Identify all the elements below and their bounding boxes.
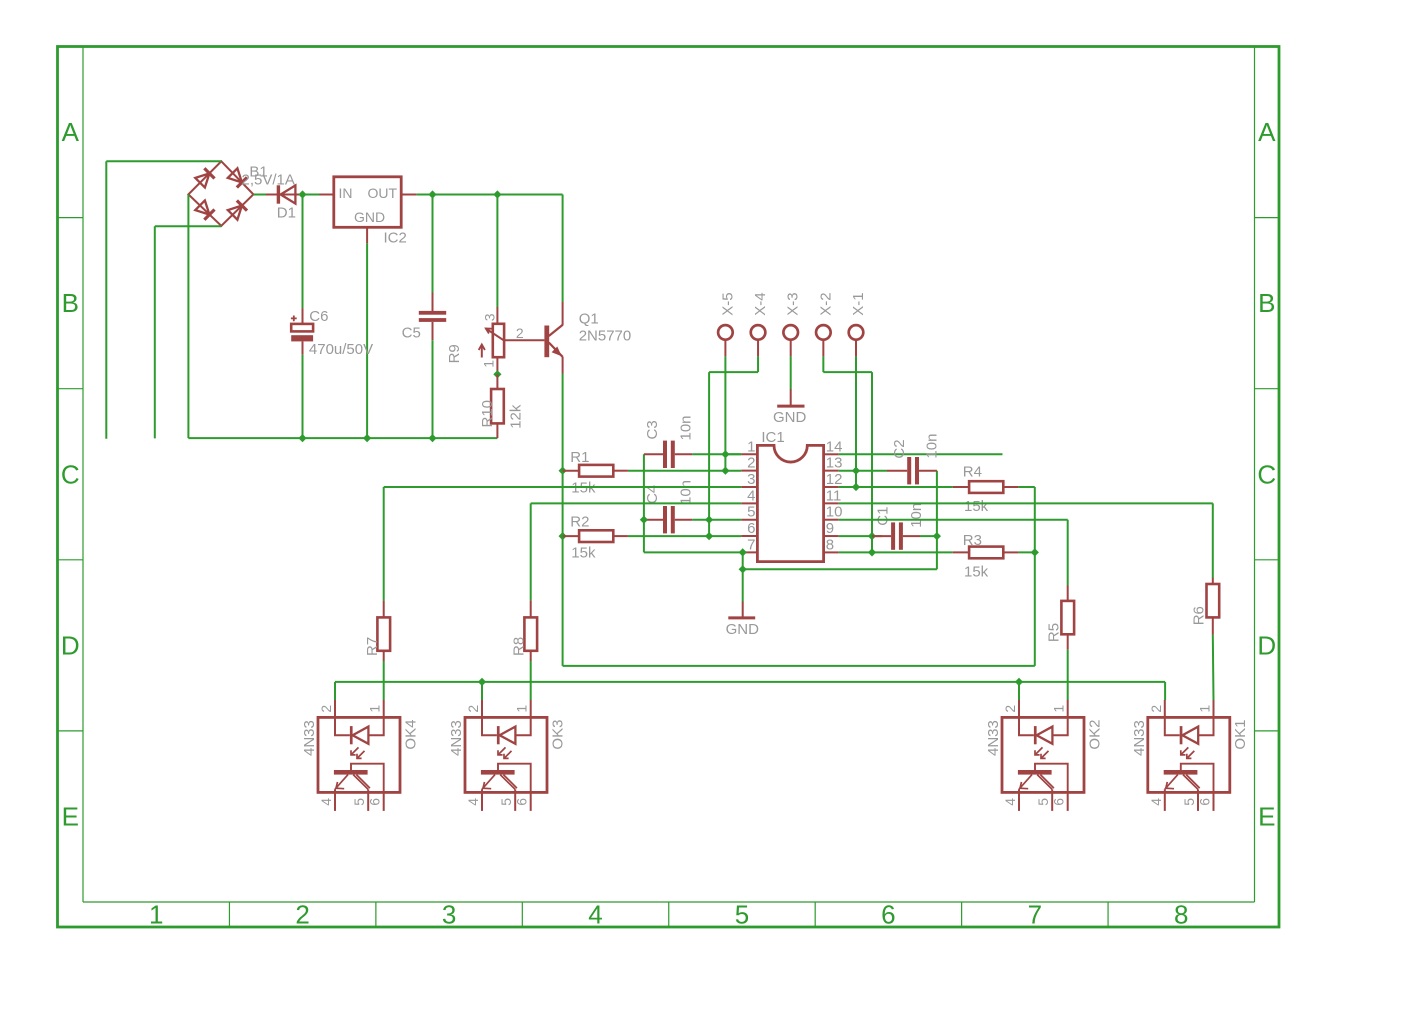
svg-text:4N33: 4N33: [1131, 720, 1148, 756]
wire X-2 down: [822, 356, 824, 372]
svg-text:7: 7: [1028, 900, 1042, 930]
svg-text:1: 1: [1197, 705, 1213, 713]
svg-text:D1: D1: [277, 204, 296, 221]
bridge diode B1 bottom-left: [195, 200, 215, 220]
svg-text:C2: C2: [891, 439, 908, 458]
svg-text:E: E: [62, 801, 79, 831]
frame row divider right: [1255, 730, 1280, 732]
resistor R3: [953, 547, 1019, 559]
connector X-4 pad: [751, 325, 766, 340]
wire AC1 left vertical: [105, 161, 107, 438]
connector X-3 pad: [783, 325, 798, 340]
svg-text:8: 8: [1174, 900, 1188, 930]
svg-text:1: 1: [514, 705, 530, 713]
svg-text:11: 11: [826, 487, 842, 504]
wire R8 drop: [530, 503, 532, 600]
svg-text:13: 13: [826, 455, 843, 472]
svg-text:OK3: OK3: [549, 720, 566, 750]
bridge diode B1 top-left: [195, 168, 215, 188]
svg-text:D: D: [1257, 630, 1276, 660]
frame row divider right: [1255, 559, 1280, 561]
svg-text:12k: 12k: [507, 404, 524, 429]
wire ground rail: [188, 437, 497, 439]
svg-text:1: 1: [747, 438, 755, 455]
IC1 pin 3 stub: [741, 486, 757, 488]
svg-text:GND: GND: [773, 409, 807, 426]
resistor R6: [1207, 578, 1220, 635]
diode D1: [266, 185, 300, 203]
svg-text:15k: 15k: [964, 498, 989, 515]
svg-text:470u/50V: 470u/50V: [309, 341, 373, 358]
svg-text:5: 5: [735, 900, 749, 930]
svg-text:7: 7: [747, 536, 755, 553]
junction X-5/pin1: [721, 450, 729, 458]
svg-text:1: 1: [367, 705, 383, 713]
svg-text:IC2: IC2: [384, 229, 407, 246]
wire C-link to pin7: [644, 551, 743, 553]
wire R5 to OK2 pin1: [1067, 650, 1069, 700]
ground symbol at X-3: [777, 389, 804, 406]
wire C-right vertical: [936, 471, 938, 570]
frame column divider: [814, 902, 816, 927]
junction R9/R10: [493, 370, 501, 378]
svg-text:6: 6: [747, 520, 755, 537]
wire R5 drop: [1067, 520, 1069, 586]
junction C4 left: [640, 516, 648, 524]
IC1 pin 2 stub: [741, 470, 757, 472]
svg-text:OK1: OK1: [1232, 720, 1249, 750]
junction rail OK2: [1015, 678, 1023, 686]
svg-text:8: 8: [826, 536, 834, 553]
wire D1 to IC2: [300, 194, 320, 196]
wire pin12 to R4: [839, 486, 953, 488]
svg-text:6: 6: [367, 798, 383, 806]
svg-text:6: 6: [1051, 798, 1067, 806]
svg-text:3: 3: [442, 900, 456, 930]
svg-text:4: 4: [465, 798, 481, 806]
junction R2 left: [559, 532, 567, 540]
svg-text:B: B: [62, 288, 79, 318]
wire bottom loop horizontal: [563, 665, 1035, 667]
frame column divider: [961, 902, 963, 927]
svg-text:2: 2: [295, 900, 309, 930]
svg-text:X-1: X-1: [850, 292, 867, 315]
svg-text:10n: 10n: [677, 415, 694, 440]
wire bridge plus to D1: [253, 194, 268, 196]
frame column divider: [668, 902, 670, 927]
frame row divider left: [58, 730, 84, 732]
svg-text:4: 4: [588, 900, 602, 930]
wire GND junction right: [743, 568, 937, 570]
junction GND loop: [739, 565, 747, 573]
connector X-1 pad: [849, 325, 864, 340]
frame inner bottom line: [83, 901, 1255, 903]
bridge rectifier B1 outline: [188, 161, 253, 226]
connector X-5 pad: [718, 325, 733, 340]
wire X-4 to pins: [708, 372, 710, 536]
wire pin11 long: [839, 502, 1213, 504]
wire loop right vertical: [1034, 487, 1036, 666]
IC1 pin 10 stub: [824, 519, 839, 521]
wire R3 right: [1018, 551, 1034, 553]
resistor R10: [491, 374, 504, 438]
svg-text:6: 6: [881, 900, 895, 930]
svg-text:5: 5: [498, 798, 514, 806]
bridge diode B1 top-right: [228, 168, 248, 188]
wire GND junction down: [742, 569, 744, 601]
resistor R5: [1061, 585, 1074, 650]
svg-text:10: 10: [826, 504, 843, 521]
svg-text:4: 4: [1002, 798, 1018, 806]
frame column divider: [1107, 902, 1109, 927]
IC1 pin 12 stub: [824, 486, 839, 488]
frame column divider: [228, 902, 230, 927]
ground symbol under IC1: [728, 602, 755, 619]
IC1 pin 7 stub: [741, 551, 757, 553]
wire pin9 to C1: [839, 535, 882, 537]
IC2 pin IN stub: [319, 194, 333, 196]
wire IC2 GND down: [366, 243, 368, 438]
capacitor C2: [887, 457, 937, 484]
frame row divider right: [1255, 217, 1280, 219]
svg-text:5: 5: [351, 798, 367, 806]
resistor R1: [563, 465, 628, 477]
wire pin6 to R2: [628, 535, 741, 537]
svg-text:X-4: X-4: [752, 292, 769, 315]
frame row divider left: [58, 559, 84, 561]
svg-text:X-2: X-2: [817, 292, 834, 315]
svg-text:R5: R5: [1046, 623, 1063, 642]
svg-text:2: 2: [465, 705, 481, 713]
svg-text:A: A: [1258, 117, 1276, 147]
svg-text:4: 4: [1148, 798, 1164, 806]
capacitor C4: [644, 506, 692, 533]
wire rail to OK2 pin2: [1018, 682, 1020, 700]
IC1 pin 9 stub: [824, 535, 839, 537]
svg-text:4N33: 4N33: [448, 720, 465, 756]
wire pin4 to R8: [531, 502, 742, 504]
svg-text:4N33: 4N33: [985, 720, 1002, 756]
IC1 pin 4 stub: [741, 502, 757, 504]
svg-text:IC1: IC1: [761, 429, 784, 446]
svg-text:14: 14: [826, 438, 843, 455]
svg-text:4N33: 4N33: [301, 720, 318, 756]
svg-text:2: 2: [318, 705, 334, 713]
svg-text:R2: R2: [570, 513, 589, 530]
connector X-3 pin stub: [790, 340, 792, 356]
svg-text:R8: R8: [511, 637, 528, 656]
IC1 pin 14 stub: [824, 453, 839, 455]
wire rail to OK3 pin2: [481, 682, 483, 700]
wire pin8 to R3: [839, 551, 953, 553]
svg-text:OK4: OK4: [402, 720, 419, 750]
svg-text:C5: C5: [402, 325, 421, 342]
junction X-5/pin2: [721, 467, 729, 475]
svg-text:6: 6: [514, 798, 530, 806]
IC1 pin 13 stub: [824, 470, 839, 472]
wire X-5 down: [724, 356, 726, 470]
IC2 pin OUT stub: [401, 194, 417, 196]
connector X-5 pin stub: [724, 340, 726, 356]
svg-text:4: 4: [318, 798, 334, 806]
svg-text:R1: R1: [570, 449, 589, 466]
connector X-2 pad: [816, 325, 831, 340]
optocoupler OK1: [1148, 700, 1230, 811]
junction X-4/pin6: [705, 532, 713, 540]
svg-text:5: 5: [747, 504, 755, 521]
junction X-2/pin8: [868, 548, 876, 556]
svg-text:5: 5: [1181, 798, 1197, 806]
frame outer border: [58, 47, 1280, 928]
wire pin1: [725, 453, 741, 455]
bridge diode B1 bottom-right: [228, 200, 248, 220]
transistor Q1: [544, 302, 562, 374]
optocoupler OK4: [318, 700, 400, 811]
wire AC2 horizontal: [155, 225, 222, 227]
frame row divider right: [1255, 388, 1280, 390]
wire X-4 jog: [709, 371, 758, 373]
svg-text:OK2: OK2: [1086, 720, 1103, 750]
svg-text:5: 5: [1035, 798, 1051, 806]
resistor R2: [563, 530, 628, 542]
resistor R8: [524, 601, 537, 661]
frame row divider left: [58, 388, 84, 390]
op-amp IC1 box: [757, 445, 823, 561]
svg-text:R6: R6: [1191, 606, 1208, 625]
wire X-2 to pins: [871, 372, 873, 552]
wire Q1 emitter down: [562, 374, 564, 666]
svg-text:IN: IN: [339, 185, 353, 201]
wire C6 bottom: [302, 355, 304, 438]
svg-text:R3: R3: [963, 532, 982, 549]
svg-text:3: 3: [481, 313, 497, 321]
svg-text:15k: 15k: [571, 545, 596, 562]
svg-text:12: 12: [826, 471, 843, 488]
frame column divider: [521, 902, 523, 927]
IC1 pin 11 stub: [824, 502, 839, 504]
svg-text:C: C: [61, 459, 80, 489]
svg-text:1: 1: [149, 900, 163, 930]
junction C1 right: [933, 532, 941, 540]
IC1 pin 6 stub: [741, 535, 757, 537]
svg-text:GND: GND: [354, 209, 385, 225]
svg-text:9: 9: [826, 520, 834, 537]
wire R7 drop: [383, 487, 385, 601]
junction rail OK3: [478, 678, 486, 686]
wire X-3 down: [790, 356, 792, 389]
junction after D1: [298, 190, 306, 198]
svg-text:1: 1: [1051, 705, 1067, 713]
svg-text:C6: C6: [309, 308, 328, 325]
svg-text:Q1: Q1: [579, 310, 599, 327]
svg-text:1: 1: [480, 360, 496, 368]
IC2 pin GND stub: [366, 227, 368, 243]
junction pin7: [739, 548, 747, 556]
svg-text:B: B: [1258, 288, 1275, 318]
resistor R7: [377, 601, 390, 661]
junction X-2/pin9: [868, 532, 876, 540]
capacitor C5: [419, 293, 446, 341]
wire R4 right corner: [1018, 486, 1034, 488]
svg-text:OUT: OUT: [367, 185, 397, 201]
wire C3 right to pin1: [692, 453, 741, 455]
capacitor C1: [872, 522, 920, 549]
junction IC2 GND at rail: [363, 434, 371, 442]
svg-text:2: 2: [1002, 705, 1018, 713]
wire LED rail: [335, 681, 1165, 683]
svg-text:E: E: [1258, 801, 1275, 831]
wire R7 to OK4 pin1: [383, 661, 385, 700]
wire R6 to OK1 pin1: [1212, 635, 1215, 700]
svg-text:A: A: [62, 117, 80, 147]
wire +V rail: [417, 194, 563, 196]
wire pin3 to R7: [384, 486, 742, 488]
frame row divider left: [58, 217, 84, 219]
svg-text:4: 4: [747, 487, 755, 504]
junction R9 pin3 tap: [493, 190, 501, 198]
wire pin2 to R1: [628, 470, 741, 472]
wire X-2 jog: [823, 371, 872, 373]
svg-text:D: D: [61, 630, 80, 660]
wire R9 top: [496, 195, 498, 308]
svg-text:2: 2: [747, 455, 755, 472]
junction X-1/pin13: [852, 467, 860, 475]
wire pin7 to GND junction: [742, 552, 744, 569]
wire C3 left vertical: [643, 454, 645, 552]
junction C5 at rail: [428, 434, 436, 442]
svg-text:R10: R10: [479, 400, 496, 428]
capacitor C6: [291, 308, 313, 355]
svg-text:3: 3: [747, 471, 755, 488]
wire R6 drop: [1212, 503, 1214, 578]
frame inner right line: [1254, 47, 1256, 903]
svg-text:10n: 10n: [908, 503, 925, 528]
svg-text:X-5: X-5: [719, 292, 736, 315]
svg-text:X-3: X-3: [785, 292, 802, 315]
junction OUT/C5: [428, 190, 436, 198]
svg-text:GND: GND: [726, 621, 760, 638]
frame inner left line: [82, 47, 84, 903]
wire pin13 to C2: [839, 470, 887, 472]
wire C6 top: [302, 195, 304, 309]
frame column divider: [375, 902, 377, 927]
svg-text:R9: R9: [446, 344, 463, 363]
wire pin10 long: [839, 519, 1068, 521]
wire X-1 down: [855, 356, 857, 487]
wire pin14 stub net: [839, 453, 1003, 455]
wire AC2 left vertical: [154, 226, 156, 438]
svg-text:2: 2: [516, 325, 524, 341]
svg-text:15k: 15k: [964, 563, 989, 580]
wire X-4 down: [757, 356, 759, 372]
svg-text:C1: C1: [875, 507, 892, 526]
IC1 pin 5 stub: [741, 519, 757, 521]
optocoupler OK3: [465, 700, 547, 811]
junction R3/R4 vertical: [1031, 548, 1039, 556]
capacitor C3: [644, 441, 692, 468]
optocoupler OK2: [1002, 700, 1084, 811]
wire rail to OK4 pin2: [334, 682, 336, 700]
IC2 box: [334, 177, 401, 228]
connector X-1 pin stub: [855, 340, 857, 356]
junction X-4/pin5: [705, 516, 713, 524]
IC1 pin 1 stub: [741, 453, 757, 455]
connector X-2 pin stub: [822, 340, 824, 356]
svg-text:R7: R7: [364, 637, 381, 656]
svg-text:6: 6: [1197, 798, 1213, 806]
svg-text:10n: 10n: [677, 480, 694, 505]
svg-text:C3: C3: [644, 420, 661, 439]
resistor R4: [953, 481, 1019, 493]
wire C5 top: [432, 195, 434, 293]
svg-text:10n: 10n: [923, 434, 940, 459]
svg-text:2,5V/1A: 2,5V/1A: [242, 171, 295, 188]
wire Q1 collector up: [562, 195, 564, 302]
wire C1 right: [920, 535, 937, 537]
trimmer R9: [479, 307, 545, 374]
svg-text:R4: R4: [963, 464, 982, 481]
wire rail to OK1 pin2: [1164, 682, 1166, 700]
svg-text:C: C: [1257, 459, 1276, 489]
svg-text:2N5770: 2N5770: [579, 328, 632, 345]
wire AC1 top horizontal: [106, 160, 221, 162]
junction R1 left: [559, 467, 567, 475]
wire bridge minus vertical: [187, 194, 189, 438]
wire R8 to OK3 pin1: [530, 661, 532, 700]
connector X-4 pin stub: [757, 340, 759, 356]
junction X-1/pin12: [852, 483, 860, 491]
wire C5 bottom: [432, 340, 434, 438]
svg-text:2: 2: [1148, 705, 1164, 713]
wire C4 right to pin5: [692, 519, 741, 521]
IC1 pin 8 stub: [824, 551, 839, 553]
junction C6 at rail: [298, 434, 306, 442]
